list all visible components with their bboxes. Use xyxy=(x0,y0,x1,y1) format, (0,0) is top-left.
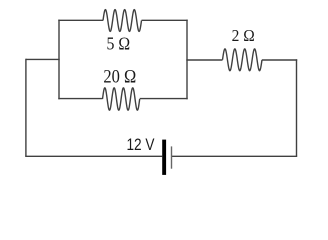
wire: top branch left lead xyxy=(58,19,103,21)
wire: right bar of parallel section (node B vertical) xyxy=(186,20,188,100)
battery V1 long thick plate xyxy=(162,140,166,175)
svg-text:2 Ω: 2 Ω xyxy=(232,25,255,45)
svg-text:5 Ω: 5 Ω xyxy=(106,33,130,53)
svg-text:20 Ω: 20 Ω xyxy=(103,65,136,86)
wire: left outer vertical xyxy=(25,59,27,157)
battery V1 short thin plate xyxy=(171,146,173,168)
wire: top branch right lead xyxy=(142,19,188,21)
wire: right outer vertical xyxy=(296,59,298,156)
wire: middle segment from node B to resistor R3 xyxy=(186,59,222,61)
svg-text:12 V: 12 V xyxy=(126,136,155,155)
wire: bottom right segment from battery xyxy=(172,155,298,157)
wire: bottom left segment to battery xyxy=(25,155,162,157)
wire: bottom branch left lead xyxy=(58,98,102,100)
resistor R3 2 ohm coil xyxy=(223,49,263,71)
resistor R1 5 ohm coil xyxy=(103,10,142,32)
wire: left bar of parallel section (node A vertical) xyxy=(58,20,60,100)
wire: right lead of resistor R3 xyxy=(262,59,297,61)
wire: left connector from outer loop to parallel section xyxy=(26,58,60,60)
resistor R2 20 ohm coil xyxy=(103,88,140,110)
wire: bottom branch right lead xyxy=(140,98,188,100)
